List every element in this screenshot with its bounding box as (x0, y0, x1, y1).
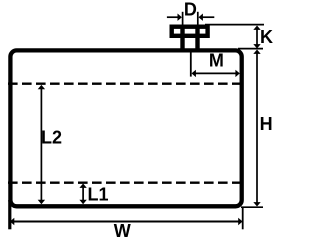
extension line at tank top level (238, 48, 263, 50)
lower dashed level line (8, 182, 240, 184)
L1 top arrow (79, 184, 86, 188)
D extension line right (197, 12, 199, 25)
W left arrow (10, 218, 14, 225)
H bottom arrow (253, 202, 260, 206)
M left arrow (192, 70, 196, 77)
D dimension left line (167, 16, 179, 18)
L2 top arrow (38, 85, 45, 89)
extension line at nozzle top level (205, 24, 264, 26)
svg-text:W: W (114, 221, 131, 239)
L2 bottom arrow (38, 200, 45, 204)
M extension line (neck centerline) (190, 53, 192, 77)
K top arrow (253, 26, 260, 30)
W right arrow (238, 218, 242, 225)
svg-text:M: M (209, 51, 224, 71)
W dimension line (13, 221, 240, 223)
neck left wall (180, 27, 184, 50)
L1 bottom arrow (79, 200, 86, 204)
L2 dimension line (40, 87, 42, 202)
W right extension line (242, 208, 244, 229)
svg-text:L2: L2 (41, 128, 62, 148)
svg-text:H: H (260, 114, 273, 134)
D dimension right arrow (199, 14, 203, 21)
L1 dimension line (82, 185, 84, 203)
K dimension line (256, 27, 258, 47)
svg-text:K: K (260, 27, 273, 47)
D dimension left arrow (178, 14, 182, 21)
H dimension line (256, 51, 258, 205)
D extension line left (182, 12, 184, 25)
H top arrow (253, 50, 260, 54)
neck right wall (195, 27, 199, 50)
D dimension right line (201, 16, 214, 18)
K bottom arrow (253, 44, 260, 48)
extension line at tank bottom level (241, 206, 263, 208)
tank body (10, 50, 241, 206)
svg-text:D: D (184, 0, 197, 19)
M right arrow (235, 70, 239, 77)
M dimension line (193, 72, 238, 74)
upper dashed level line (8, 83, 240, 85)
flange of top fitting (172, 27, 208, 36)
W left extension line (8, 200, 11, 229)
svg-text:L1: L1 (88, 185, 109, 205)
